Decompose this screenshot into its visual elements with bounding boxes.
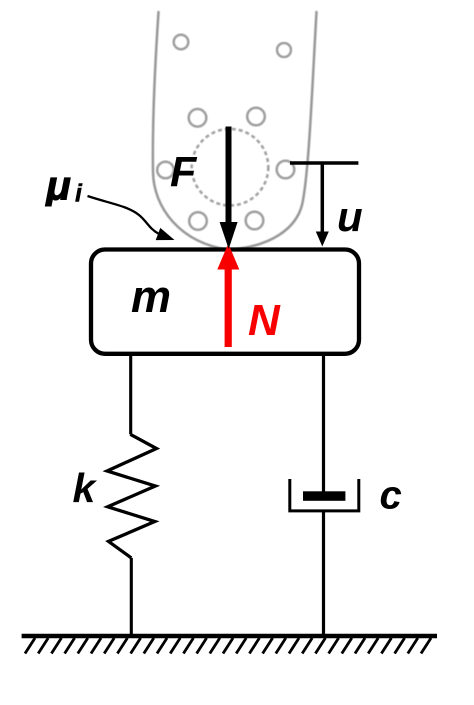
displacement reference line (horizontal) xyxy=(290,161,358,164)
svg-text:u: u xyxy=(337,193,363,240)
svg-text:μ: μ xyxy=(45,163,71,209)
ground hatching xyxy=(25,638,431,654)
spring upper rod xyxy=(129,354,132,434)
force arrow F (head) xyxy=(220,222,238,249)
ground line xyxy=(22,634,437,639)
displacement arrow u (head) xyxy=(316,232,329,247)
bolt hole top-left xyxy=(174,35,189,50)
leader arrow from mu to mass corner xyxy=(88,196,160,234)
displacement arrow u (shaft) xyxy=(321,163,325,233)
svg-text:F: F xyxy=(170,149,198,197)
svg-text:c: c xyxy=(380,474,402,518)
bolt hole upper-left xyxy=(189,109,207,127)
svg-text:N: N xyxy=(248,296,281,345)
bolt hole lower-right xyxy=(246,212,264,230)
spring lower rod xyxy=(130,558,133,636)
leader arrowhead xyxy=(156,228,175,240)
bolt hole upper-right xyxy=(247,108,265,126)
bolt hole right xyxy=(277,161,295,179)
spring k zigzag xyxy=(107,434,156,558)
svg-text:k: k xyxy=(73,465,98,511)
normal force arrow N (shaft, red) xyxy=(225,268,232,347)
damper upper rod xyxy=(322,354,325,492)
bolt hole top-right xyxy=(277,43,291,57)
svg-text:i: i xyxy=(75,180,83,208)
damper lower rod xyxy=(322,511,325,637)
damper piston plate xyxy=(303,491,345,501)
central spindle circle xyxy=(192,129,269,206)
normal force arrow N (head, red) xyxy=(217,244,239,270)
svg-text:m: m xyxy=(131,271,171,322)
mass block m xyxy=(91,250,359,354)
label mu xyxy=(45,163,71,209)
bolt hole left xyxy=(157,162,174,179)
bolt hole lower-left xyxy=(189,212,207,230)
damper cylinder cup xyxy=(290,479,359,511)
tool housing outline (gray) xyxy=(153,12,317,250)
force arrow F (shaft) xyxy=(226,127,232,224)
